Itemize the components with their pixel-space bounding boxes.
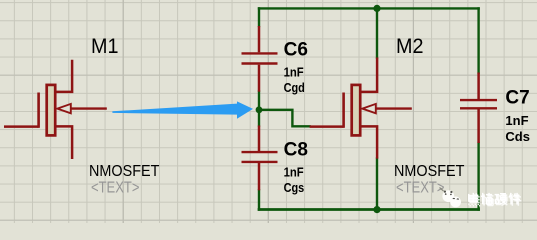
svg-text:1nF: 1nF [284, 165, 304, 180]
svg-text:M1: M1 [91, 34, 118, 58]
svg-text:C7: C7 [505, 88, 529, 109]
svg-text:Cgs: Cgs [284, 180, 305, 195]
svg-text:1nF: 1nF [284, 65, 304, 80]
svg-text:C8: C8 [284, 140, 308, 161]
svg-text:1nF: 1nF [505, 113, 528, 128]
svg-text:<TEXT>: <TEXT> [91, 179, 139, 196]
svg-text:NMOSFET: NMOSFET [394, 163, 464, 181]
svg-text:<TEXT>: <TEXT> [396, 179, 444, 196]
svg-text:C6: C6 [284, 40, 308, 61]
svg-text:NMOSFET: NMOSFET [89, 163, 159, 181]
svg-text:Cds: Cds [505, 129, 530, 144]
svg-text:M2: M2 [396, 34, 423, 58]
svg-text:Cgd: Cgd [284, 80, 305, 95]
